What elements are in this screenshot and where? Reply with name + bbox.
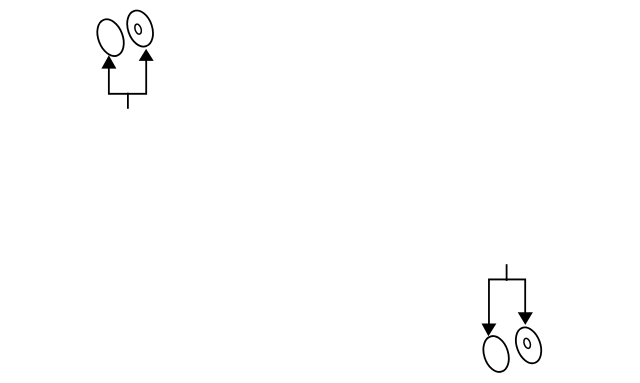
wire: fork bracket (left vertical, horizontal bar, right vertical) bottom-right figure [489, 279, 525, 324]
wire: fork bracket (left vertical, horizontal bar, right vertical) top-left figure [109, 60, 146, 94]
arrowhead: up arrow to node B [139, 49, 154, 61]
arrowhead: down arrow to node C [482, 324, 497, 337]
arrowhead: up arrow to node A [101, 55, 116, 68]
node D: donut ellipse inner hole [523, 338, 532, 350]
wire: stem above fork (bottom-right figure) [506, 264, 508, 281]
node C: plain ellipse (bottom-right figure, left node) [479, 333, 513, 375]
node B: donut ellipse inner hole [134, 23, 143, 35]
wire: stem below fork (top-left figure) [127, 93, 129, 109]
node D: donut ellipse outer (bottom-right figure, right node) [511, 324, 546, 367]
node A: plain ellipse (top-left figure, left node) [92, 15, 128, 59]
arrowhead: down arrow to node D [518, 312, 533, 325]
node B: donut ellipse outer (top-left figure, right node) [123, 7, 158, 50]
